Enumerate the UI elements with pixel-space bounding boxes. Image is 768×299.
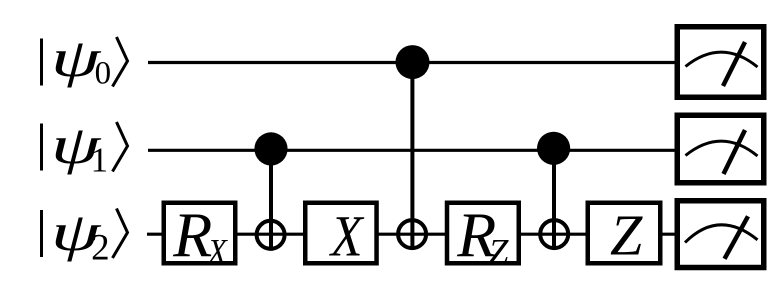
svg-text:R: R bbox=[172, 200, 212, 271]
gate X box bbox=[305, 203, 376, 268]
svg-text:Z: Z bbox=[488, 232, 509, 272]
measurement meter M0 on q0 bbox=[677, 27, 764, 98]
svg-text:0: 0 bbox=[95, 56, 112, 92]
wire q0 bbox=[148, 61, 678, 64]
vertical connector CNOT3 q1->q2 bbox=[552, 148, 556, 250]
control dot on q1 (CNOT3) bbox=[537, 132, 570, 165]
qubit label |psi2> bbox=[42, 201, 128, 268]
wire q2 bbox=[147, 233, 678, 236]
control dot on q1 (CNOT1) bbox=[254, 132, 287, 165]
vertical connector CNOT2 q0->q2 bbox=[410, 62, 414, 250]
vertical connector CNOT1 q1->q2 bbox=[269, 149, 273, 251]
svg-text:X: X bbox=[329, 204, 365, 268]
CNOT target oplus on q2 (CNOT1) bbox=[257, 221, 285, 249]
measurement meter M1 on q1 bbox=[677, 115, 764, 183]
svg-text:Z: Z bbox=[610, 203, 643, 268]
gate Z box bbox=[588, 203, 661, 268]
wire q1 bbox=[148, 149, 678, 152]
gate RX box bbox=[164, 200, 236, 273]
qubit label |psi0> bbox=[42, 27, 128, 92]
CNOT target oplus on q2 (CNOT3) bbox=[540, 220, 568, 248]
svg-text:X: X bbox=[206, 233, 228, 272]
svg-text:1: 1 bbox=[91, 141, 109, 180]
measurement meter M2 on q2 bbox=[677, 201, 764, 268]
CNOT target oplus on q2 (CNOT2) bbox=[398, 220, 426, 248]
qubit label |psi1> bbox=[42, 114, 128, 180]
svg-text:2: 2 bbox=[91, 227, 110, 268]
gate RZ box bbox=[447, 200, 519, 272]
control dot on q0 (CNOT2) bbox=[396, 45, 430, 79]
